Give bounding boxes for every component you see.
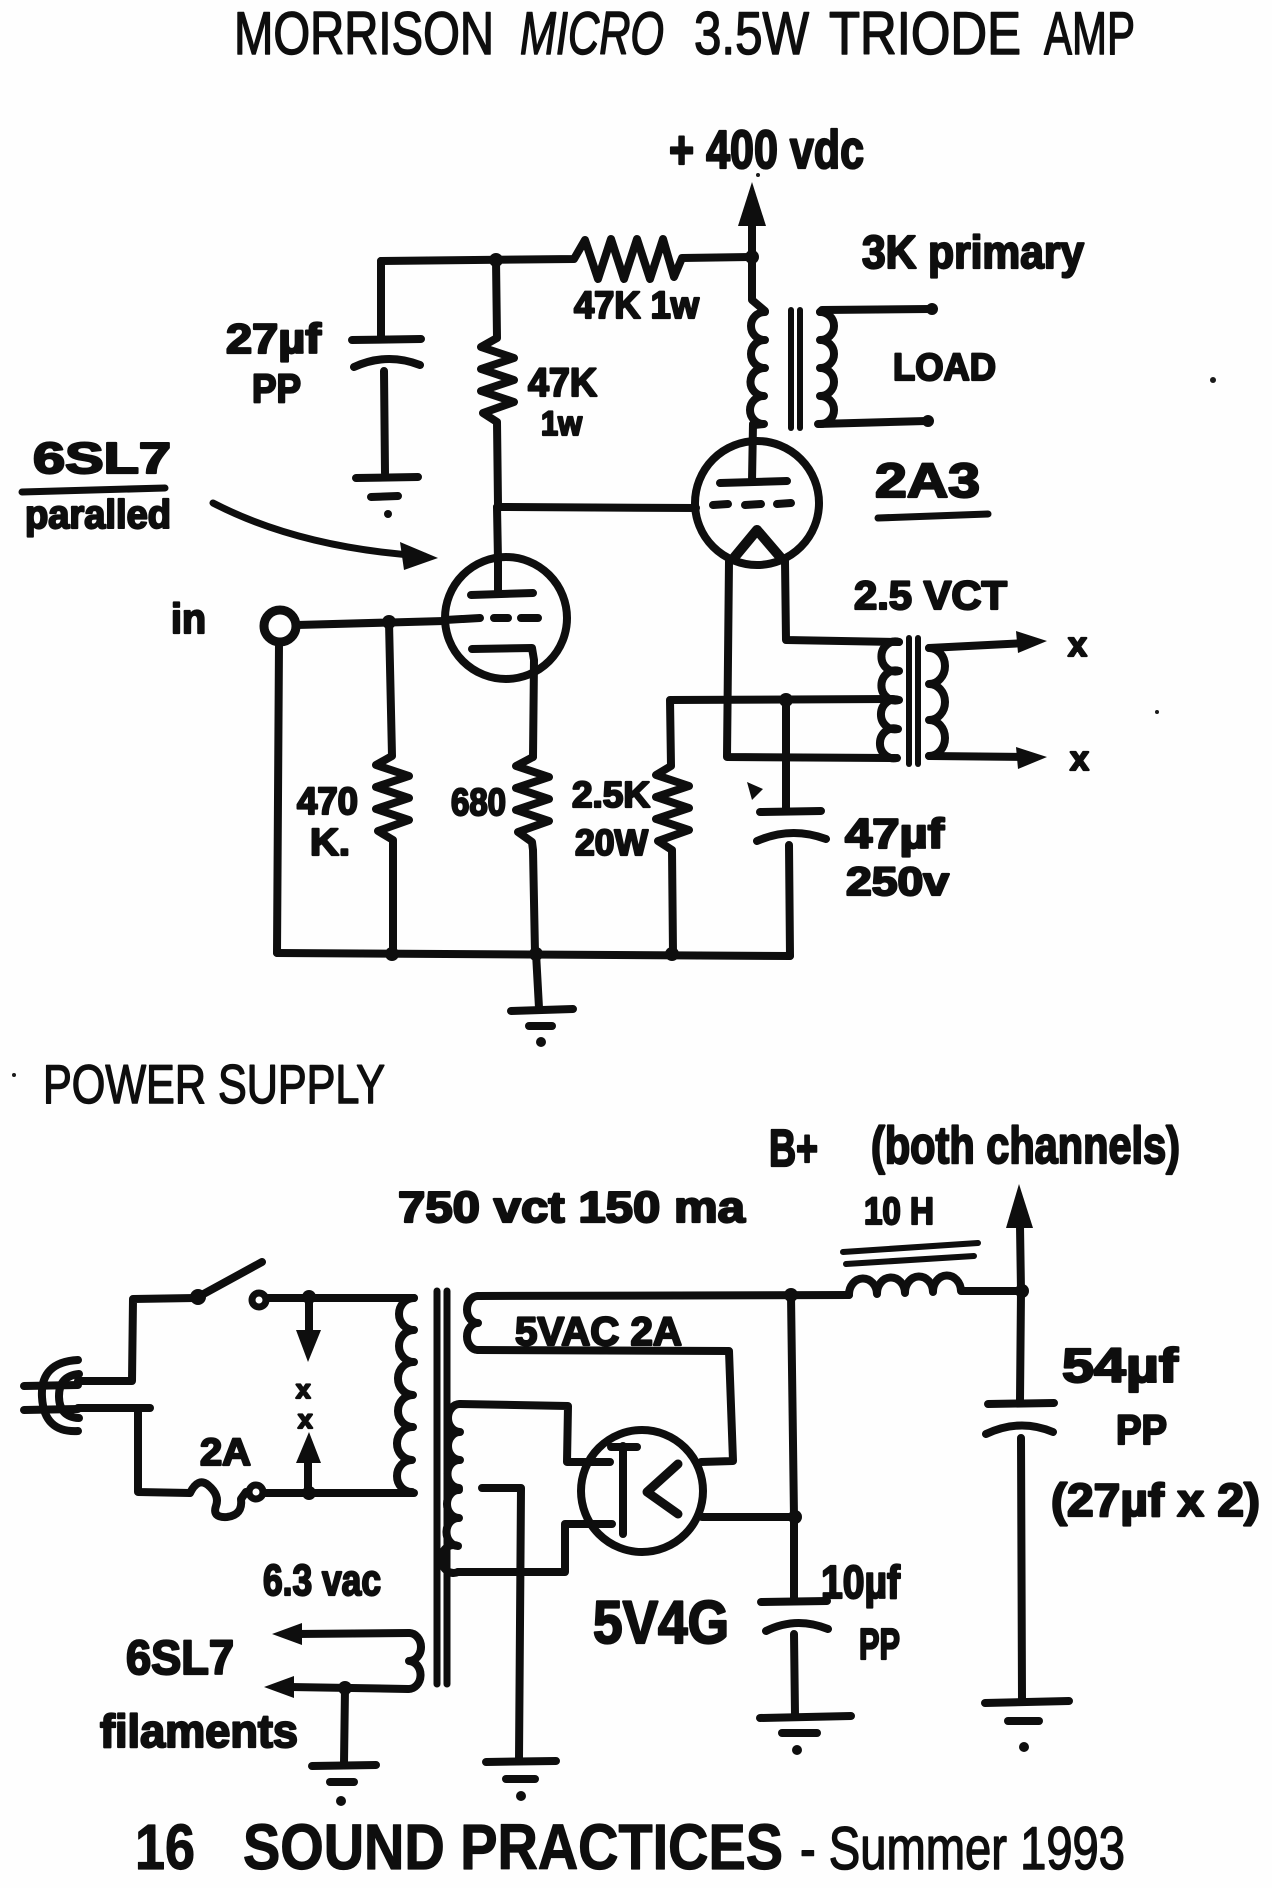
svg-text:(27µf x 2): (27µf x 2) [1051, 1474, 1260, 1526]
svg-text:6.3 vac: 6.3 vac [263, 1556, 381, 1605]
svg-text:1w: 1w [541, 405, 582, 443]
svg-text:250v: 250v [846, 860, 950, 904]
svg-text:LOAD: LOAD [893, 347, 996, 389]
svg-text:x: x [1070, 740, 1089, 778]
svg-text:POWER SUPPLY: POWER SUPPLY [43, 1053, 385, 1115]
svg-text:2.5 VCT: 2.5 VCT [854, 574, 1007, 618]
svg-text:20W: 20W [575, 822, 648, 863]
svg-text:x: x [1068, 626, 1087, 664]
svg-text:54µf: 54µf [1062, 1340, 1179, 1393]
svg-text:x: x [298, 1404, 313, 1434]
svg-text:16: 16 [135, 1811, 195, 1883]
svg-text:47µf: 47µf [845, 810, 945, 857]
svg-text:470: 470 [297, 781, 358, 823]
svg-text:x: x [296, 1374, 311, 1404]
svg-text:PP: PP [859, 1620, 900, 1669]
svg-text:3K primary: 3K primary [862, 226, 1084, 278]
svg-text:27µf: 27µf [226, 315, 322, 362]
svg-text:in: in [171, 595, 206, 642]
svg-text:MORRISON: MORRISON [234, 0, 494, 67]
svg-text:PP: PP [252, 367, 301, 411]
svg-text:SOUND PRACTICES: SOUND PRACTICES [243, 1811, 783, 1883]
svg-text:2A: 2A [200, 1432, 251, 1474]
svg-text:3.5W: 3.5W [694, 0, 809, 67]
svg-text:filaments: filaments [100, 1705, 298, 1757]
svg-text:(both channels): (both channels) [871, 1117, 1180, 1175]
svg-text:- Summer 1993: - Summer 1993 [800, 1815, 1125, 1882]
svg-text:B+: B+ [769, 1120, 818, 1178]
svg-text:47K 1w: 47K 1w [574, 285, 699, 327]
svg-text:2A3: 2A3 [875, 455, 980, 508]
svg-text:10 H: 10 H [864, 1191, 934, 1233]
svg-text:10µf: 10µf [821, 1556, 901, 1608]
svg-text:TRIODE: TRIODE [829, 0, 1021, 67]
svg-text:paralled: paralled [25, 493, 171, 537]
svg-text:+ 400 vdc: + 400 vdc [669, 120, 864, 180]
svg-text:5VAC 2A: 5VAC 2A [515, 1310, 682, 1354]
svg-text:5V4G: 5V4G [593, 1589, 729, 1656]
svg-text:AMP: AMP [1044, 0, 1135, 67]
svg-text:K.: K. [310, 822, 350, 864]
svg-text:PP: PP [1116, 1406, 1167, 1453]
svg-text:2.5K: 2.5K [572, 774, 650, 815]
svg-text:6SL7: 6SL7 [33, 434, 171, 483]
svg-text:MICRO: MICRO [520, 0, 664, 67]
svg-text:750 vct 150 ma: 750 vct 150 ma [398, 1183, 746, 1232]
svg-text:680: 680 [451, 782, 506, 824]
svg-text:6SL7: 6SL7 [126, 1632, 234, 1685]
svg-text:47K: 47K [528, 361, 597, 405]
